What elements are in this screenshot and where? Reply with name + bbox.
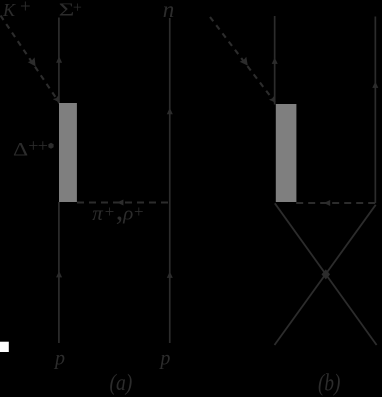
arrowhead end kaon line (a): [53, 95, 59, 102]
right fermion line (n/p): [169, 18, 171, 343]
left fermion line upper (Sigma): [58, 18, 60, 104]
arrowhead end kaon line (b): [269, 96, 275, 103]
svg-text:Δ: Δ: [13, 139, 28, 160]
svg-text:,: ,: [116, 194, 124, 227]
svg-text:(b): (b): [318, 370, 340, 397]
resonance bar b: [276, 104, 297, 202]
arrow up on right line (b): [372, 82, 378, 88]
arrowhead left on pion line (a): [117, 200, 123, 206]
svg-text:+: +: [73, 0, 82, 16]
svg-text:p: p: [53, 348, 65, 370]
left fermion line upper (b): [274, 16, 276, 105]
right fermion line (b): [374, 17, 376, 204]
arrow up on left line (b): [272, 58, 278, 64]
svg-text:(a): (a): [110, 369, 133, 395]
svg-text:+: +: [134, 202, 144, 221]
arrow up on Sigma line: [56, 56, 62, 63]
svg-text:K: K: [2, 0, 16, 20]
dashed pion line (b): [296, 202, 375, 204]
arrowhead mid kaon line (a): [28, 57, 36, 66]
resonance bar a (Delta++*): [59, 103, 77, 202]
arrow up on left p line: [56, 271, 62, 277]
svg-text:+: +: [20, 0, 31, 17]
star superscript of Delta: [48, 143, 53, 149]
dashed kaon line (a): [1, 16, 60, 103]
svg-text:n: n: [163, 0, 175, 22]
crossed diagonal A (b): [275, 203, 377, 345]
left fermion line lower (p): [58, 202, 60, 343]
arrow up on n line (upper): [167, 108, 173, 114]
svg-text:p: p: [158, 348, 170, 370]
svg-text:π: π: [92, 201, 103, 225]
label Delta++*: [13, 136, 48, 160]
label K+: [2, 0, 31, 20]
svg-text:+: +: [38, 136, 48, 156]
svg-text:ρ: ρ: [122, 203, 133, 224]
svg-text:+: +: [105, 202, 115, 221]
junction blob at crossing: [322, 269, 331, 279]
crossed diagonal B (b): [275, 205, 376, 345]
label pi+, rho+: [92, 194, 143, 227]
white square marker: [0, 342, 9, 352]
arrowhead left on pion line (b): [324, 200, 330, 206]
dashed pion line (a): [77, 202, 170, 204]
arrowhead mid kaon line (b): [240, 57, 248, 66]
dashed kaon line (b): [210, 17, 275, 102]
label Sigma+: [59, 0, 82, 20]
arrow up on n line (lower): [167, 272, 173, 278]
